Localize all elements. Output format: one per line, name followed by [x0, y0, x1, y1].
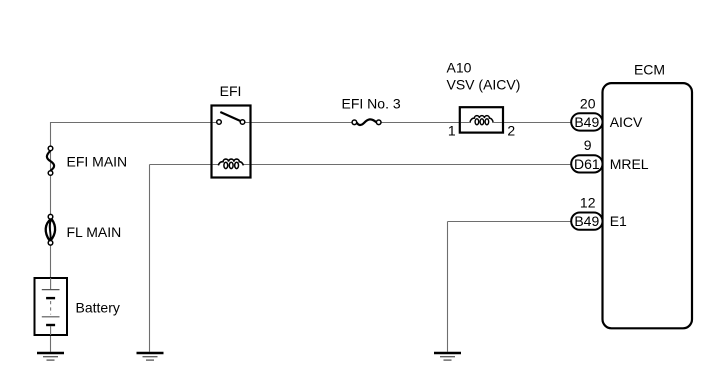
svg-text:Battery: Battery: [76, 300, 120, 316]
wire battery feed vertical: [50, 122, 52, 278]
wire E1 horizontal: [448, 221, 572, 223]
ground E1: [434, 353, 461, 360]
wire E1 ground vertical: [447, 222, 449, 352]
svg-text:B49: B49: [574, 213, 599, 229]
wire inside relay switch row: [213, 122, 250, 124]
svg-text:EFI: EFI: [220, 83, 242, 99]
svg-text:VSV (AICV): VSV (AICV): [447, 76, 521, 92]
svg-text:1: 1: [448, 123, 456, 139]
svg-text:20: 20: [580, 95, 596, 111]
svg-text:AICV: AICV: [610, 114, 643, 130]
fuse EFI MAIN: [47, 146, 54, 175]
svg-text:MREL: MREL: [610, 156, 649, 172]
wire MREL run from ground corner through relay coil to D61: [150, 164, 572, 166]
wire VSV pin 2 to AICV terminal: [503, 122, 572, 124]
ground relay coil: [137, 353, 164, 360]
connector D61 pin 9 oval: [571, 155, 602, 172]
svg-text:2: 2: [507, 123, 515, 139]
svg-text:9: 9: [584, 137, 592, 153]
svg-text:ECM: ECM: [634, 61, 665, 77]
VSV A10 box: [460, 107, 503, 132]
connector B49 pin 12 oval: [571, 213, 602, 230]
wire top horizontal to relay: [50, 122, 212, 124]
wire relay coil ground vertical: [149, 165, 151, 352]
svg-text:E1: E1: [610, 213, 627, 229]
wire inside VSV: [461, 122, 502, 124]
svg-text:EFI MAIN: EFI MAIN: [67, 154, 128, 170]
relay EFI box: [212, 106, 251, 178]
relay switch contact right: [240, 120, 245, 125]
svg-text:12: 12: [580, 195, 596, 211]
wire inside relay coil row: [213, 164, 250, 166]
connector B49 pin 20 oval: [571, 113, 602, 130]
svg-text:EFI No. 3: EFI No. 3: [342, 96, 401, 112]
wire battery to ground: [50, 335, 52, 352]
ECM box: [603, 83, 693, 328]
relay coil: [218, 159, 243, 169]
wire relay to EFI No.3 fuse: [251, 122, 353, 124]
VSV coil: [470, 116, 493, 125]
relay switch contact left: [217, 120, 222, 125]
fusible link FL MAIN: [46, 214, 55, 245]
relay switch blade: [220, 112, 241, 121]
ground battery: [37, 353, 64, 360]
wire fuse to VSV pin 1: [381, 122, 460, 124]
svg-text:D61: D61: [574, 156, 600, 172]
fuse EFI No. 3: [352, 119, 381, 125]
battery: [35, 278, 68, 335]
svg-text:FL MAIN: FL MAIN: [67, 224, 122, 240]
svg-text:B49: B49: [574, 114, 599, 130]
svg-text:A10: A10: [447, 60, 472, 76]
